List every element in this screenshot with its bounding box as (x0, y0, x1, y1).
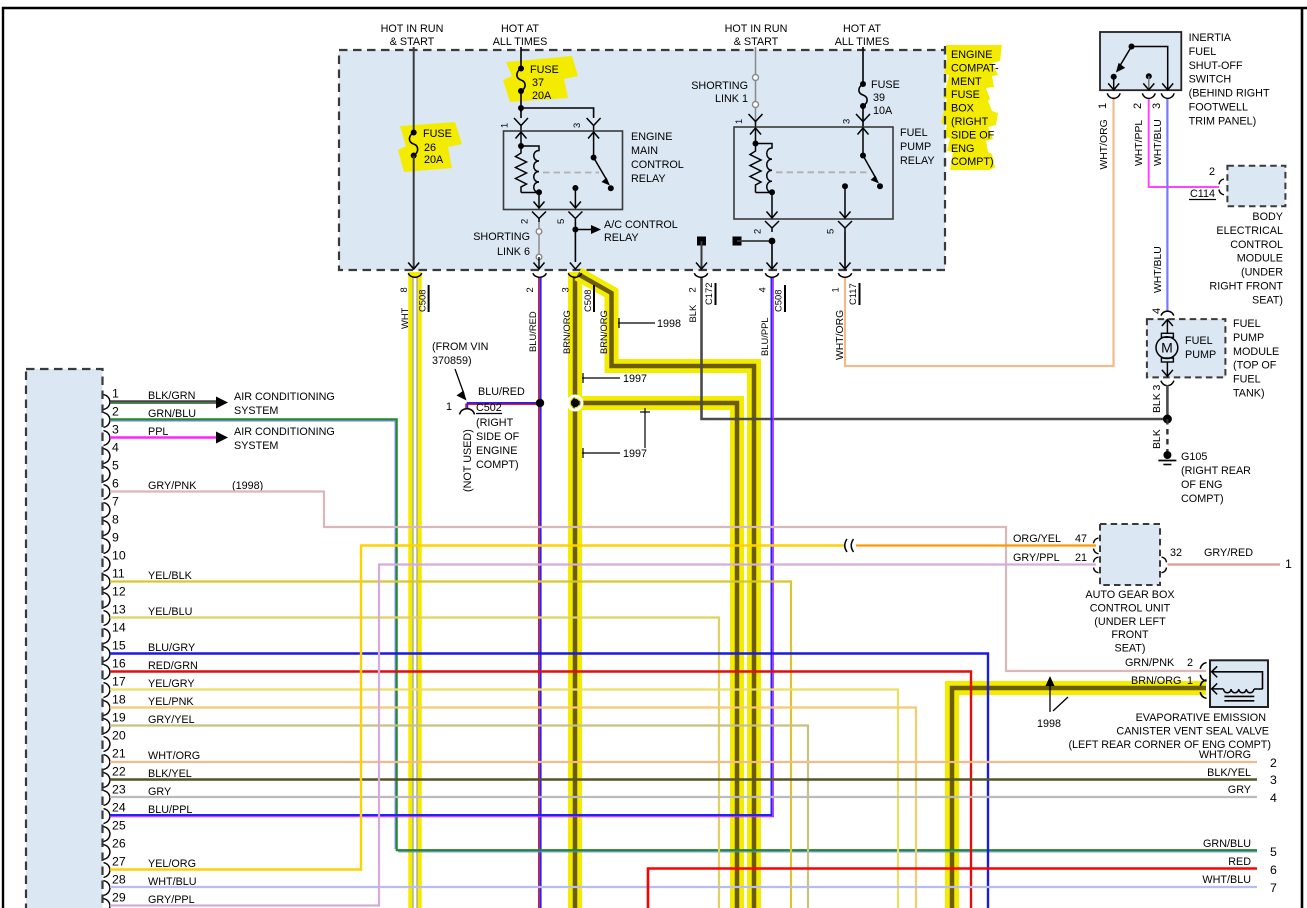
highlight fuse box title (941, 45, 1002, 170)
svg-text:SWITCH: SWITCH (1189, 74, 1232, 86)
pin 3 bracket below box (1161, 381, 1174, 386)
wire 15 BLU/GRY right then down (110, 654, 988, 908)
svg-text:3: 3 (841, 119, 852, 124)
wire 16 RED/GRN right then down (110, 672, 971, 908)
svg-text:(RIGHT: (RIGHT (951, 116, 989, 128)
svg-text:FUEL: FUEL (1233, 374, 1261, 386)
svg-text:BODY: BODY (1252, 211, 1283, 223)
arrow to box bottom (570, 263, 581, 270)
dashed BLK wire to ground (1166, 419, 1168, 451)
pin 6 bracket (104, 485, 111, 500)
svg-text:(UNDER LEFT: (UNDER LEFT (1094, 616, 1166, 628)
svg-text:LINK 6: LINK 6 (497, 246, 530, 258)
svg-text:15: 15 (112, 639, 126, 653)
svg-text:INERTIA: INERTIA (1189, 32, 1232, 44)
svg-text:3: 3 (560, 287, 571, 292)
connector C114 bracket (1219, 179, 1224, 195)
svg-text:SHORTING: SHORTING (473, 231, 530, 243)
svg-text:COMPT): COMPT) (476, 459, 519, 471)
svg-text:1: 1 (733, 119, 744, 124)
svg-text:WHT/PPL: WHT/PPL (1134, 120, 1145, 166)
svg-text:FUSE: FUSE (871, 79, 900, 91)
svg-text:BRN/ORG: BRN/ORG (561, 310, 572, 354)
svg-text:27: 27 (112, 855, 126, 869)
wire WHT/PPL magenta (1149, 99, 1219, 187)
arrow down into box (1166, 320, 1168, 335)
wire BLU/RED (C508 pin 2) (538, 277, 540, 908)
svg-text:SEAT): SEAT) (1115, 643, 1146, 655)
pin arrows to box bottom (1113, 77, 1115, 90)
svg-text:CONTROL: CONTROL (631, 159, 684, 171)
svg-text:RELAY: RELAY (604, 232, 639, 244)
wire common to pin 3 (1132, 47, 1168, 90)
solenoid coil (1212, 689, 1263, 693)
pin 14 bracket (104, 629, 111, 644)
svg-text:BLK/GRN: BLK/GRN (148, 390, 195, 402)
svg-text:WHT/BLU: WHT/BLU (1153, 119, 1164, 166)
svg-text:FRONT: FRONT (1111, 629, 1149, 641)
svg-text:2: 2 (687, 287, 698, 292)
connector C508 pin 8 bracket (408, 273, 422, 277)
svg-text:5: 5 (825, 229, 836, 234)
svg-text:25: 25 (112, 819, 126, 833)
svg-text:YEL/PNK: YEL/PNK (148, 696, 194, 708)
svg-text:GRY/YEL: GRY/YEL (148, 714, 195, 726)
svg-text:5: 5 (1270, 845, 1277, 859)
pin 21 bracket (104, 755, 111, 770)
svg-text:4: 4 (112, 441, 119, 455)
core bars (1224, 695, 1254, 697)
svg-text:(1998): (1998) (232, 480, 263, 492)
wire feed down to fuse 26 (413, 47, 415, 132)
svg-text:14: 14 (112, 621, 126, 635)
svg-text:ALL TIMES: ALL TIMES (493, 36, 548, 48)
wire 22 BLK/YEL to right pin 3 (110, 778, 1257, 780)
coil inductor arcs (521, 146, 539, 193)
svg-text:(UNDER: (UNDER (1241, 267, 1283, 279)
stub square left (697, 237, 706, 246)
svg-text:RED: RED (1228, 856, 1251, 868)
pin 9 bracket (104, 539, 111, 554)
highlight fuse 26 (398, 122, 462, 172)
wire coil to pin 2, arrow down (538, 193, 540, 209)
pin 24 bracket (104, 809, 111, 824)
callout 1997 lower on BRN/ORG 1 (582, 452, 620, 454)
pin brackets below box (1107, 93, 1120, 98)
svg-text:BLK: BLK (1152, 429, 1163, 449)
svg-text:1998: 1998 (1037, 718, 1061, 730)
connector C508 pin 2 bracket (533, 273, 547, 277)
pin 1 V connector (514, 118, 528, 126)
svg-text:1: 1 (499, 123, 510, 128)
wire WHT/BLU (1166, 99, 1168, 311)
svg-text:BLK/YEL: BLK/YEL (148, 768, 192, 780)
svg-text:1: 1 (1187, 675, 1193, 687)
svg-text:1997: 1997 (623, 373, 647, 385)
pin 2 V below box (532, 212, 546, 223)
svg-text:1: 1 (1285, 557, 1292, 571)
wire GRY/RED to right (1168, 563, 1281, 565)
svg-text:COMPT): COMPT) (951, 156, 994, 168)
node (572, 227, 578, 233)
pin 17 bracket (104, 683, 111, 698)
wire fuse 37 to junction (520, 91, 522, 112)
svg-text:PUMP: PUMP (1185, 349, 1216, 361)
pin 32 bracket right side (1162, 557, 1167, 573)
svg-text:16: 16 (112, 657, 126, 671)
pin 25 bracket (104, 827, 111, 842)
wire WHT highlighted (C508 pin 8) (408, 272, 422, 908)
wire 3 PPL to A/C system arrow (110, 436, 216, 439)
svg-text:SIDE OF: SIDE OF (476, 431, 520, 443)
svg-text:13: 13 (112, 603, 126, 617)
svg-text:BRN/ORG: BRN/ORG (598, 310, 609, 354)
svg-text:2: 2 (112, 405, 119, 419)
wire 21 WHT/ORG to right pin 2 (110, 761, 1257, 763)
dashed box (1100, 524, 1160, 585)
svg-text:SHORTING: SHORTING (691, 80, 748, 92)
svg-text:2: 2 (1187, 657, 1193, 669)
svg-text:GRY: GRY (1228, 784, 1251, 796)
svg-text:SEAT): SEAT) (1252, 294, 1283, 306)
wire 2 GRN/BLU right then down then right to pin 5 right side (110, 419, 1257, 850)
pin 19 bracket (104, 719, 111, 734)
svg-text:BLU/PPL: BLU/PPL (759, 317, 770, 356)
svg-text:FOOTWELL: FOOTWELL (1189, 102, 1248, 114)
svg-text:24: 24 (112, 801, 126, 815)
svg-text:29: 29 (112, 891, 126, 905)
pin 7 bracket (104, 503, 111, 518)
pin 28 bracket (104, 881, 111, 896)
pin 27 bracket (104, 863, 111, 878)
svg-text:WHT/ORG: WHT/ORG (1099, 119, 1110, 169)
motor M symbol (1161, 333, 1173, 337)
wire junction split horizontal (521, 108, 594, 118)
pin 1 V connector of fuel pump relay (749, 114, 763, 122)
svg-text:AUTO GEAR BOX: AUTO GEAR BOX (1085, 589, 1174, 601)
wire 13 YEL/BLU right then down (110, 618, 719, 908)
switch dashed actuator line (543, 172, 599, 174)
wire 18 YEL/PNK right then down (110, 708, 916, 908)
pin 5 V below box (568, 212, 582, 223)
svg-text:1: 1 (446, 401, 452, 413)
pin 3 bracket (104, 431, 111, 446)
switch output node (572, 185, 578, 191)
pin 15 bracket (104, 647, 111, 662)
svg-text:26: 26 (112, 837, 126, 851)
wire to pin 5, arrow down (574, 188, 576, 208)
svg-text:1: 1 (112, 387, 119, 401)
svg-text:BLK 3: BLK 3 (1152, 384, 1163, 413)
svg-text:FUEL: FUEL (1189, 46, 1217, 58)
svg-text:6: 6 (1270, 863, 1277, 877)
interrupt symbol on ORG/YEL wire (845, 539, 854, 552)
pin 5 V below (838, 221, 852, 232)
leader arrow to C502 (455, 369, 464, 394)
svg-text:26: 26 (424, 142, 436, 154)
wire feed down (520, 47, 522, 68)
pin 1 arrow up inside (755, 128, 757, 143)
pin 10 bracket (104, 557, 111, 572)
wire BRN/ORG 2 highlighted: diagonal jog then down then right then down (578, 274, 754, 908)
svg-text:8: 8 (398, 287, 409, 292)
connector C172 pin 2 bracket (694, 273, 708, 277)
svg-text:3: 3 (571, 123, 582, 128)
svg-text:HOT AT: HOT AT (843, 23, 881, 35)
svg-text:FUSE: FUSE (951, 89, 980, 101)
connector C508 pin 4 bracket (765, 273, 779, 277)
svg-text:LINK 1: LINK 1 (715, 93, 748, 105)
wire BRN/ORG 1 highlighted (C508 pin 3) (568, 272, 582, 908)
svg-text:HOT IN RUN: HOT IN RUN (725, 23, 788, 35)
svg-text:RELAY: RELAY (631, 173, 666, 185)
module dashed box (1147, 319, 1226, 377)
pin 29 bracket (104, 899, 111, 908)
ground G105 (1163, 451, 1171, 459)
coil resistor zigzag (750, 144, 761, 193)
svg-text:BLU/GRY: BLU/GRY (148, 642, 195, 654)
svg-text:12: 12 (112, 585, 126, 599)
svg-text:1: 1 (830, 287, 841, 292)
svg-text:4: 4 (1151, 308, 1163, 314)
wire coil to pin 2 arrow down (771, 193, 773, 219)
wire down arrow (771, 241, 773, 269)
svg-text:GRN/BLU: GRN/BLU (148, 408, 196, 420)
branch wire horizontal (737, 240, 772, 242)
svg-text:FUSE: FUSE (530, 64, 559, 76)
svg-text:MENT: MENT (951, 76, 982, 88)
junction node (1163, 415, 1172, 424)
pin 20 bracket (104, 737, 111, 752)
junction node on BLU/RED vertical (536, 399, 544, 407)
svg-text:RIGHT FRONT: RIGHT FRONT (1209, 281, 1283, 293)
switch output node (842, 183, 848, 189)
switch pivot node (591, 155, 597, 161)
wire BRN/ORG 3 highlighted: branch from junction right then down (575, 403, 737, 908)
svg-text:PUMP: PUMP (1233, 332, 1264, 344)
svg-text:WHT/ORG: WHT/ORG (835, 310, 846, 360)
svg-text:YEL/BLU: YEL/BLU (148, 606, 192, 618)
svg-text:BLK: BLK (687, 304, 698, 322)
svg-text:20A: 20A (424, 154, 444, 166)
wire BLU/RED from C502 to junction (466, 404, 539, 408)
svg-text:19: 19 (112, 711, 126, 725)
arrow at fuse box bottom (408, 263, 419, 270)
wire BLK (C172 pin 2) down then right to fuel pump ground junction (702, 277, 1168, 419)
wire BRN/ORG highlighted from evap pin 1 left then down (952, 688, 1206, 908)
junction node (518, 105, 524, 111)
svg-text:WHT/BLU: WHT/BLU (1153, 246, 1164, 293)
valve box (1210, 660, 1268, 707)
svg-text:MODULE: MODULE (1237, 253, 1283, 265)
svg-text:(RIGHT REAR: (RIGHT REAR (1181, 465, 1251, 477)
svg-text:4: 4 (1270, 791, 1277, 805)
engine compartment fuse box body (339, 50, 945, 270)
svg-text:(BEHIND RIGHT: (BEHIND RIGHT (1189, 88, 1270, 100)
svg-text:3: 3 (112, 423, 119, 437)
svg-text:ENGINE: ENGINE (631, 131, 672, 143)
svg-text:9: 9 (112, 531, 119, 545)
svg-text:M: M (1161, 340, 1173, 356)
arrow right to A/C control relay (575, 229, 594, 231)
connector C502 bracket (460, 409, 475, 415)
svg-text:WHT/BLU: WHT/BLU (1202, 874, 1251, 886)
wire 11 YEL/BLK right then down (110, 582, 791, 908)
switch blade to pin 1 (1120, 47, 1132, 67)
svg-text:COMPT): COMPT) (1181, 493, 1224, 505)
wire to pin 3 (862, 106, 864, 127)
svg-text:BRN/ORG: BRN/ORG (1131, 675, 1181, 687)
wire fuse 26 to bottom of fuse box (413, 156, 415, 269)
pin 3 V connector (856, 114, 870, 122)
svg-text:BLK/YEL: BLK/YEL (1207, 767, 1251, 779)
svg-text:FUEL: FUEL (900, 127, 928, 139)
svg-text:CONTROL: CONTROL (1230, 239, 1283, 251)
wire 28 WHT/BLU to right pin 7 (110, 886, 1257, 888)
svg-text:GRY/RED: GRY/RED (1204, 547, 1253, 559)
svg-text:28: 28 (112, 873, 126, 887)
svg-text:GRY/PPL: GRY/PPL (148, 894, 195, 906)
pin 2 bracket (104, 413, 111, 428)
coil bottom wire (521, 192, 539, 194)
connector C117 pin 1 bracket (838, 273, 852, 277)
svg-text:CONTROL UNIT: CONTROL UNIT (1090, 602, 1171, 614)
wire 17 YEL/GRY right then down (110, 690, 898, 908)
svg-text:& START: & START (390, 36, 435, 48)
svg-text:OF ENG: OF ENG (1181, 479, 1222, 491)
pin 8 bracket (104, 521, 111, 536)
pin 12 bracket (104, 593, 111, 608)
junction node (769, 238, 776, 245)
svg-text:GRY/PNK: GRY/PNK (148, 480, 197, 492)
pin 23 bracket (104, 791, 111, 806)
svg-text:32: 32 (1170, 547, 1182, 559)
svg-text:C114: C114 (1190, 188, 1215, 200)
svg-text:2: 2 (1209, 166, 1215, 178)
callout 1997 upper on BRN/ORG 1 (582, 377, 620, 379)
svg-text:ENGINE: ENGINE (951, 49, 992, 61)
arrow down to box bottom (1166, 362, 1168, 376)
switch common node (1129, 44, 1135, 50)
svg-text:3: 3 (1270, 773, 1277, 787)
connector C508 pin 3 bracket (568, 273, 582, 277)
svg-text:2: 2 (752, 229, 763, 234)
svg-text:BOX: BOX (951, 103, 974, 115)
svg-text:(NOT USED): (NOT USED) (462, 429, 474, 492)
coil arrow (1212, 683, 1218, 694)
svg-text:20: 20 (112, 729, 126, 743)
wire 27 YEL/ORG right then up then right (ORG/YEL) to auto gear box pin 47 (110, 546, 845, 870)
svg-text:2: 2 (519, 219, 530, 224)
switch blade (863, 156, 876, 179)
svg-text:7: 7 (112, 495, 119, 509)
wire 19 GRY/YEL right then down (110, 726, 808, 908)
svg-text:2: 2 (524, 287, 535, 292)
wire 6 GRY/PNK: right, down, right, down, to evap GRN/PNK pin 2 (110, 492, 1206, 672)
fuse 26 (411, 130, 417, 136)
svg-text:ALL TIMES: ALL TIMES (835, 36, 890, 48)
svg-text:SYSTEM: SYSTEM (234, 440, 278, 452)
coil node (518, 143, 524, 149)
svg-text:MODULE: MODULE (1233, 346, 1279, 358)
svg-text:4: 4 (757, 287, 768, 292)
wire pin5 down arrow (844, 232, 846, 269)
svg-text:ENGINE: ENGINE (476, 445, 517, 457)
svg-text:WHT/ORG: WHT/ORG (1199, 749, 1251, 761)
wire RED from bottom edge up and right to pin 6 (648, 869, 1257, 908)
svg-text:C502: C502 (476, 402, 502, 414)
top arrow into valve (1212, 666, 1218, 677)
svg-text:TRIM PANEL): TRIM PANEL) (1189, 115, 1257, 127)
svg-text:5: 5 (112, 459, 119, 473)
svg-text:SYSTEM: SYSTEM (234, 405, 278, 417)
svg-text:C508: C508 (582, 290, 593, 312)
wire 23 GRY to right pin 4 (110, 796, 1257, 798)
svg-text:2: 2 (1132, 103, 1144, 109)
switch blade (594, 158, 607, 181)
svg-text:ORG/YEL: ORG/YEL (1013, 533, 1061, 545)
svg-text:8: 8 (112, 513, 119, 527)
fuse 37 (518, 66, 524, 72)
svg-text:HOT IN RUN: HOT IN RUN (381, 23, 444, 35)
svg-text:5: 5 (555, 219, 566, 224)
svg-text:23: 23 (112, 783, 126, 797)
svg-text:YEL/GRY: YEL/GRY (148, 678, 195, 690)
fuse box right edge dashes over highlight (944, 46, 946, 172)
svg-text:3: 3 (1151, 103, 1163, 109)
svg-text:21: 21 (112, 747, 126, 761)
svg-text:GRY/PPL: GRY/PPL (1013, 552, 1060, 564)
svg-text:BLU/RED: BLU/RED (478, 386, 525, 398)
wire pin5 down (574, 222, 576, 262)
fuse 39 (860, 81, 866, 87)
svg-text:GRN/PNK: GRN/PNK (1125, 657, 1175, 669)
wire WHT/ORG (C117 pin 1) down then right then up to inertia switch (845, 97, 1114, 366)
svg-text:WHT: WHT (399, 307, 410, 329)
svg-text:CANISTER VENT SEAL VALVE: CANISTER VENT SEAL VALVE (1116, 725, 1269, 737)
arrow to box bottom (538, 257, 540, 269)
pin 16 bracket (104, 665, 111, 680)
svg-text:AIR CONDITIONING: AIR CONDITIONING (234, 426, 335, 438)
svg-text:YEL/ORG: YEL/ORG (148, 858, 196, 870)
svg-text:370859): 370859) (432, 355, 472, 367)
wire 24 BLU/PPL from fuse box vertical (110, 814, 771, 816)
svg-text:A/C CONTROL: A/C CONTROL (604, 219, 678, 231)
svg-text:11: 11 (112, 567, 125, 581)
svg-text:22: 22 (112, 765, 126, 779)
pin 18 bracket (104, 701, 111, 716)
pin 1 bracket (104, 395, 111, 410)
svg-text:1998: 1998 (657, 318, 681, 330)
pin 3 arrow up inside (593, 132, 595, 157)
svg-text:& START: & START (734, 36, 779, 48)
svg-text:YEL/BLK: YEL/BLK (148, 570, 193, 582)
svg-text:18: 18 (112, 693, 126, 707)
svg-text:PUMP: PUMP (900, 141, 931, 153)
svg-text:FUEL: FUEL (1233, 318, 1261, 330)
pin 1 arrow up inside (520, 132, 522, 146)
svg-text:AIR CONDITIONING: AIR CONDITIONING (234, 391, 335, 403)
pin 3 arrow up inside (862, 128, 864, 155)
svg-text:SHUT-OFF: SHUT-OFF (1189, 60, 1243, 72)
svg-text:6: 6 (112, 477, 119, 491)
pin 1 bracket (1200, 680, 1206, 699)
relay box (504, 131, 623, 210)
wire BLK to junction (1166, 385, 1169, 419)
body ECM dashed box (1227, 166, 1285, 207)
pin 4 bracket (104, 449, 111, 464)
svg-text:FUSE: FUSE (423, 128, 452, 140)
